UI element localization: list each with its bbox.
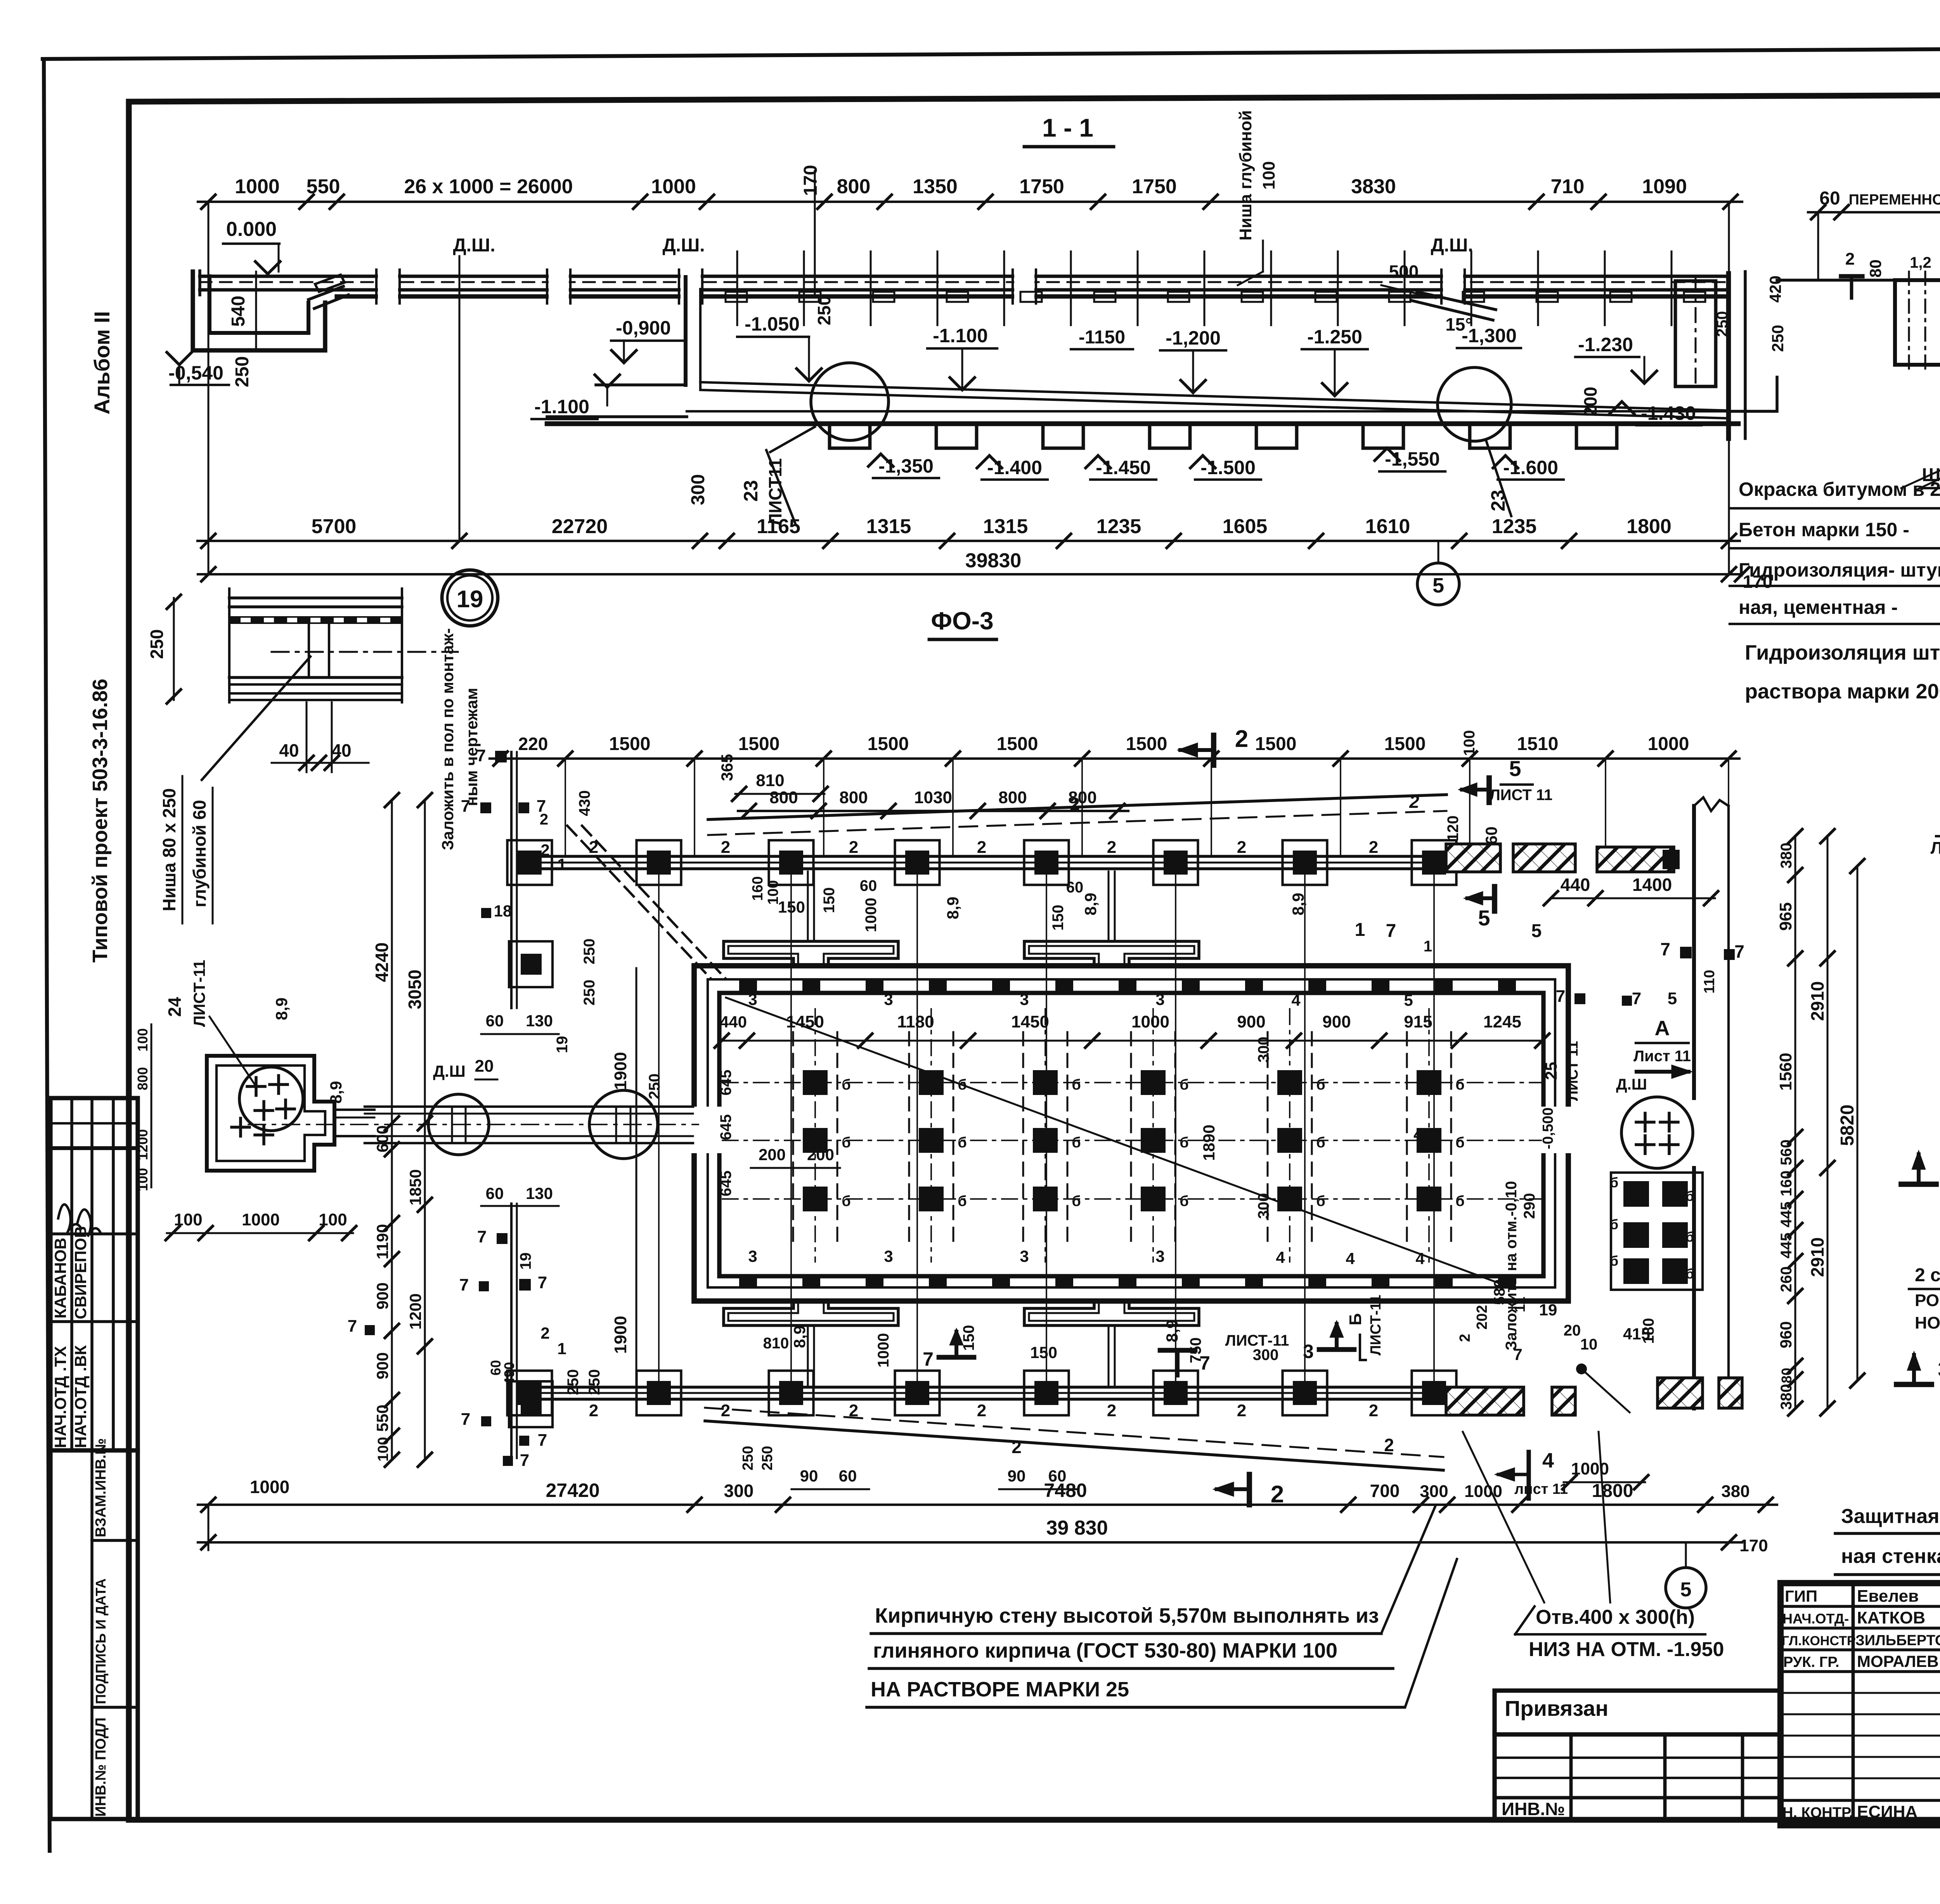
svg-text:150: 150 [1030,1343,1057,1362]
svg-text:200: 200 [759,1145,786,1164]
svg-text:24: 24 [165,997,185,1017]
svg-text:380: 380 [1778,843,1795,869]
diagonal line across pit [726,998,1498,1283]
svg-text:б: б [1685,1266,1694,1282]
svg-text:19: 19 [517,1253,534,1270]
svg-text:1560: 1560 [1776,1053,1795,1091]
svg-text:2: 2 [1237,1401,1246,1420]
svg-text:40: 40 [331,740,351,761]
bottom wall anchor squares row [739,1277,757,1288]
svg-text:60: 60 [860,877,877,894]
DSh circle 2 [589,1090,658,1159]
svg-text:б: б [1455,1135,1464,1151]
left stamp table column dividers [70,1098,73,1450]
section mark 7 arrow lower second [1160,1348,1195,1353]
svg-text:810: 810 [763,1335,789,1352]
svg-text:580: 580 [1491,1279,1508,1305]
title block signature table verticals [1852,1583,1855,1825]
svg-text:300: 300 [724,1481,754,1501]
svg-text:2: 2 [1012,1437,1022,1457]
svg-text:7: 7 [538,1273,547,1292]
svg-text:7: 7 [520,1451,529,1470]
svg-text:0.000: 0.000 [226,218,277,241]
extension verticals of 2-2 chain [1817,212,1819,280]
svg-text:710: 710 [1551,175,1585,198]
svg-text:900: 900 [373,1352,391,1379]
pit middle wall line [708,979,1555,1287]
svg-text:19: 19 [457,586,483,613]
svg-text:глубиной 60: глубиной 60 [189,800,210,907]
svg-text:900: 900 [1237,1012,1265,1031]
svg-text:1 - 1: 1 - 1 [1042,113,1093,142]
svg-text:ФО-3: ФО-3 [931,607,993,635]
svg-text:1605: 1605 [1223,515,1268,538]
left vertical dimension chains of plan [391,800,393,1460]
svg-text:7: 7 [1386,921,1396,941]
svg-text:80: 80 [1779,1368,1794,1383]
svg-text:490: 490 [501,1362,517,1385]
svg-text:1900: 1900 [611,1052,630,1090]
foundation slab thick bottom line [547,421,1738,426]
svg-text:8,9: 8,9 [1163,1320,1181,1342]
svg-text:2: 2 [540,811,548,828]
svg-text:1165: 1165 [757,515,800,538]
inner top dimension row of pit [722,1040,1542,1042]
small anchor hooks row under floor band [726,292,747,302]
tooth detail circle 23 right [1438,367,1511,441]
svg-text:б: б [1685,1188,1694,1204]
svg-text:5: 5 [1668,989,1677,1008]
svg-text:90: 90 [1008,1467,1026,1485]
svg-text:1200: 1200 [406,1293,424,1329]
svg-text:1750: 1750 [1019,175,1064,198]
svg-text:100: 100 [1461,730,1478,756]
svg-text:НОЙ МАСТИКЕ: НОЙ МАСТИКЕ [1915,1313,1940,1332]
section mark 3 arrow left [1897,1382,1931,1387]
sloped line 2 above plan [708,795,1446,819]
svg-text:-1.430: -1.430 [1641,402,1696,424]
svg-text:НАЧ.ОТД .ТХ: НАЧ.ОТД .ТХ [51,1346,69,1448]
svg-text:3: 3 [748,990,757,1008]
svg-text:110: 110 [1701,970,1718,993]
svg-text:3: 3 [1155,990,1164,1008]
detail 24 left dims 100 800 1200 100 rotated [151,1024,152,1187]
section 1-1 top dimension chain [198,201,1742,203]
svg-text:540: 540 [228,296,249,327]
svg-text:1000: 1000 [651,175,696,198]
svg-text:7: 7 [477,1227,487,1246]
svg-text:250: 250 [740,1446,756,1470]
I-beam joint detail top left [228,589,230,702]
svg-text:1,2: 1,2 [1910,254,1931,271]
svg-text:1315: 1315 [983,515,1028,538]
svg-text:440: 440 [1561,875,1590,895]
left columns strip lower [510,1204,513,1458]
svg-text:8,9: 8,9 [790,1325,809,1348]
leader from niche note to I-beam [202,657,310,780]
svg-text:б: б [1180,1135,1188,1151]
svg-text:2 слоя рубе-: 2 слоя рубе- [1915,1265,1940,1286]
pit to floor sloped transition [308,286,343,300]
left stamp table row lines [50,1122,138,1124]
plan top dimension chain 800s [738,810,1128,812]
svg-text:150: 150 [821,887,838,913]
svg-text:1750: 1750 [1132,175,1177,198]
svg-text:Лист 11: Лист 11 [1633,1048,1691,1065]
svg-text:Д.Ш: Д.Ш [1616,1076,1647,1093]
svg-text:130: 130 [526,1184,553,1202]
svg-text:900: 900 [1322,1012,1351,1031]
svg-text:300: 300 [1420,1482,1448,1501]
svg-text:2: 2 [1070,794,1080,814]
svg-text:27420: 27420 [546,1480,599,1501]
svg-text:3: 3 [1155,1247,1164,1265]
svg-text:7: 7 [348,1317,357,1336]
svg-text:1235: 1235 [1096,515,1141,538]
svg-text:7: 7 [538,1431,547,1450]
right side wall of building [1692,806,1696,1098]
outer sheet border left [44,59,50,1851]
svg-text:130: 130 [526,1012,553,1030]
svg-text:-1.050: -1.050 [745,313,800,335]
svg-text:ЕСИНА: ЕСИНА [1857,1802,1917,1821]
svg-text:800: 800 [839,788,868,807]
svg-text:250: 250 [646,1074,663,1100]
svg-text:4: 4 [1346,1249,1355,1268]
svg-text:б: б [958,1135,967,1151]
left pit inner wall [210,276,308,333]
svg-text:430: 430 [576,790,593,816]
svg-text:26 x 1000 = 26000: 26 x 1000 = 26000 [404,175,573,198]
svg-text:б: б [1072,1135,1081,1151]
svg-text:915: 915 [1404,1012,1432,1031]
svg-text:б: б [1455,1077,1464,1093]
svg-text:3: 3 [884,1247,893,1265]
svg-text:2: 2 [589,1401,598,1420]
svg-text:150: 150 [960,1325,977,1351]
svg-text:1500: 1500 [997,734,1038,754]
svg-text:8,9: 8,9 [272,998,291,1020]
svg-text:8,9: 8,9 [327,1081,345,1104]
left stamp table frame [50,1098,138,1819]
svg-text:180: 180 [1640,1318,1657,1344]
svg-text:Ниша глубиной: Ниша глубиной [1236,110,1255,241]
svg-text:5: 5 [1432,574,1444,597]
top beam column boxes [508,840,552,885]
I-beam centerline [272,651,458,653]
svg-text:1500: 1500 [609,734,651,754]
svg-text:Кирпичную стену высотой 5,5: Кирпичную стену высотой 5,570м выполнять… [875,1604,1379,1627]
svg-text:СВИРЕПОВ: СВИРЕПОВ [71,1226,90,1319]
svg-text:900: 900 [373,1282,391,1310]
svg-text:Типовой проект 503-3-16.86: Типовой проект 503-3-16.86 [88,679,112,963]
svg-text:ГИП: ГИП [1785,1587,1817,1605]
svg-text:ЛИСТ 11: ЛИСТ 11 [1931,839,1940,858]
svg-text:1: 1 [1424,938,1432,955]
stamp signature squiggle 1 [58,1204,81,1234]
plan bottom dimension chain [198,1504,1777,1506]
svg-text:4: 4 [1276,1248,1285,1266]
svg-text:1800: 1800 [1592,1481,1633,1501]
svg-text:ная, цементная -: ная, цементная - [1739,596,1898,618]
leader lines from wall note [1382,1506,1436,1632]
svg-text:60: 60 [839,1467,857,1485]
bottom strip footing beam [520,1386,1440,1389]
svg-text:б: б [1316,1193,1325,1209]
svg-text:-1.100: -1.100 [933,325,988,346]
svg-text:А: А [1655,1017,1670,1040]
svg-text:250: 250 [565,1369,582,1395]
svg-text:550: 550 [307,175,340,198]
svg-text:445: 445 [1778,1202,1795,1228]
svg-text:ГЛ.КОНСТР: ГЛ.КОНСТР [1782,1634,1856,1648]
svg-text:100: 100 [135,1168,151,1191]
svg-text:4: 4 [1542,1449,1554,1472]
svg-text:7: 7 [1513,1345,1522,1363]
svg-text:раствора марки 200, состава: раствора марки 200, состава 1:1 с железн… [1745,680,1940,703]
svg-text:2: 2 [977,838,986,857]
privyazan table frame [1495,1691,1781,1820]
svg-text:7: 7 [923,1348,934,1370]
svg-text:5820: 5820 [1837,1105,1858,1146]
svg-text:1000: 1000 [242,1210,280,1229]
svg-text:ЗИЛЬБЕРТОВ: ЗИЛЬБЕРТОВ [1855,1632,1940,1649]
svg-text:7: 7 [461,797,470,816]
svg-text:КАТКОВ: КАТКОВ [1857,1608,1925,1627]
svg-text:1900: 1900 [611,1316,630,1354]
svg-text:2910: 2910 [1807,1237,1827,1277]
hatched wall block top right A [1446,844,1500,872]
svg-text:2: 2 [1409,792,1419,812]
svg-text:ВЗАМ.ИНВ.№: ВЗАМ.ИНВ.№ [93,1438,109,1537]
svg-text:б: б [958,1193,967,1209]
svg-text:1000: 1000 [1648,734,1689,754]
svg-text:2: 2 [1845,249,1855,269]
title block outer frame [1781,1583,1940,1825]
circle 5 left of spec table [1417,563,1459,605]
svg-text:2: 2 [977,1401,986,1420]
svg-text:7: 7 [476,746,486,765]
outer sheet border top [43,46,1940,59]
svg-text:445: 445 [1778,1233,1795,1259]
vertical reference line at 5700 [459,256,461,541]
svg-text:-1,550: -1,550 [1385,448,1440,470]
svg-text:18: 18 [494,902,512,920]
svg-text:1610: 1610 [1365,515,1410,538]
svg-text:ЛИСТ-11: ЛИСТ-11 [1225,1332,1289,1349]
svg-text:Заложить на отм.-0,10: Заложить на отм.-0,10 [1503,1181,1520,1351]
svg-text:380: 380 [1721,1482,1749,1501]
right wall door opening [1539,1107,1578,1153]
svg-text:4: 4 [1415,1249,1425,1268]
svg-text:60: 60 [486,1184,504,1202]
svg-text:1000: 1000 [250,1477,289,1497]
svg-text:ПОДПИСЬ И ДАТА: ПОДПИСЬ И ДАТА [93,1578,109,1704]
svg-text:380: 380 [1778,1384,1795,1410]
svg-text:60: 60 [486,1012,504,1030]
svg-text:3: 3 [1938,1357,1940,1381]
svg-text:1400: 1400 [1632,875,1672,895]
detail circle 19 [442,570,498,626]
svg-text:-1.100: -1.100 [534,396,589,418]
floor slab band [200,275,1729,278]
svg-text:1315: 1315 [866,515,911,538]
svg-text:б: б [1610,1253,1618,1269]
svg-text:б: б [1610,1175,1618,1190]
svg-text:3: 3 [1303,1341,1314,1362]
bottom T-channel protrusion left [724,1301,898,1325]
svg-text:220: 220 [518,734,548,754]
svg-text:1000: 1000 [1131,1012,1169,1031]
svg-text:800: 800 [998,788,1027,807]
svg-text:8,9: 8,9 [1289,893,1307,915]
svg-text:150: 150 [1050,905,1067,931]
svg-text:б: б [1180,1077,1188,1093]
sloped line 2 below plan [705,1421,1443,1470]
svg-text:1180: 1180 [897,1012,934,1031]
privyazan table rows [1495,1757,1781,1759]
hatched wall block top right B [1513,844,1575,872]
svg-text:1000: 1000 [863,898,880,932]
svg-text:5: 5 [1478,906,1490,930]
svg-text:3050: 3050 [405,970,425,1009]
slope wedge at right end 500 [1417,292,1496,310]
svg-text:1200: 1200 [135,1129,151,1160]
svg-text:РУК. ГР.: РУК. ГР. [1783,1654,1840,1670]
svg-text:5700: 5700 [312,515,357,538]
svg-text:2: 2 [1237,838,1246,857]
svg-text:3: 3 [1020,1247,1029,1265]
section mark 7 arrow lower [939,1355,974,1360]
svg-text:25: 25 [1542,1062,1560,1080]
grid verticals through pit at column axes [658,871,660,1387]
svg-text:2: 2 [1107,1401,1116,1420]
svg-text:800: 800 [135,1067,151,1090]
svg-text:560: 560 [1778,1140,1795,1166]
detail 24 right arm channel [334,1109,374,1111]
svg-text:5: 5 [1404,991,1413,1009]
svg-text:7: 7 [1734,941,1744,962]
ground line of section 2-2 [1777,279,1940,282]
svg-text:250: 250 [581,980,598,1006]
svg-text:200: 200 [807,1145,834,1164]
svg-text:7: 7 [459,1275,469,1294]
svg-text:8,9: 8,9 [1081,893,1100,915]
svg-text:400: 400 [1413,1125,1441,1143]
hatched block far bottom right [1719,1378,1742,1408]
svg-text:Альбом II: Альбом II [90,311,114,415]
svg-text:1030: 1030 [914,788,952,807]
svg-text:365: 365 [718,754,736,781]
svg-text:160: 160 [750,876,766,901]
svg-text:Гидроизоляция- штукатур-: Гидроизоляция- штукатур- [1739,559,1940,581]
svg-text:б: б [1072,1077,1081,1093]
svg-text:-0,540: -0,540 [168,362,223,384]
svg-text:60: 60 [1066,879,1084,896]
dashed line below sloped line [708,811,1446,835]
plan top dimension chain 1500s [490,757,1739,760]
svg-text:15°: 15° [1445,314,1472,334]
svg-text:ПЕРЕМЕННО: ПЕРЕМЕННО [1849,192,1940,208]
svg-text:645: 645 [717,1171,734,1197]
svg-text:7: 7 [1199,1352,1210,1374]
svg-text:РОИДА НА БИТУМ-: РОИДА НА БИТУМ- [1915,1291,1940,1310]
trench left floor stub at -1.100 [596,383,686,386]
svg-text:Бетон марки 150 -: Бетон марки 150 - [1739,519,1909,541]
section mark 4 arrow 3-3 [1901,1182,1936,1187]
svg-text:100: 100 [1259,161,1278,189]
top T-channel protrusion right [1024,941,1199,966]
svg-text:20: 20 [475,1057,494,1076]
svg-text:НАЧ.ОТД .ВК: НАЧ.ОТД .ВК [71,1345,90,1448]
svg-text:290: 290 [1521,1193,1538,1219]
hatched block bottom right wall [1658,1378,1703,1408]
svg-text:260: 260 [1778,1266,1795,1292]
floor band joint gaps [378,272,398,300]
svg-text:б: б [1316,1077,1325,1093]
hatched wall block top right C [1597,847,1674,872]
svg-text:90: 90 [800,1467,818,1485]
svg-text:Д.Ш.: Д.Ш. [1431,235,1473,256]
svg-text:НА РАСТВОРЕ МАРКИ 25: НА РАСТВОРЕ МАРКИ 25 [871,1678,1129,1701]
svg-text:250: 250 [1769,325,1787,352]
svg-text:ЛИСТ 11: ЛИСТ 11 [1565,1041,1581,1101]
svg-text:250: 250 [814,296,834,326]
svg-text:2: 2 [1369,838,1378,857]
svg-text:НИЗ НА ОТМ. -1.950: НИЗ НА ОТМ. -1.950 [1529,1638,1724,1661]
section 2-2 dimension chain [1808,211,1940,213]
svg-text:2: 2 [721,1401,730,1420]
privyazan table thick divider [1495,1732,1781,1736]
svg-text:1: 1 [557,855,566,873]
svg-text:3: 3 [884,990,893,1008]
foundation slab top line [687,410,1738,412]
svg-text:22720: 22720 [552,515,608,538]
svg-text:2: 2 [1384,1435,1394,1455]
top strip footing beam [520,855,1440,858]
svg-text:250: 250 [147,629,167,659]
svg-text:440: 440 [720,1013,747,1031]
svg-text:960: 960 [1777,1321,1795,1348]
svg-text:60: 60 [1819,188,1840,209]
left wall door opening [689,1107,724,1153]
svg-text:Заложить в пол по монтаж-: Заложить в пол по монтаж- [438,628,457,850]
svg-text:ЛИСТ-11: ЛИСТ-11 [1368,1295,1384,1356]
trench sloping floor lines [700,382,1729,411]
svg-text:2910: 2910 [1807,981,1827,1021]
svg-text:200: 200 [1580,387,1600,417]
svg-text:Д.Ш: Д.Ш [433,1062,466,1080]
svg-text:40: 40 [279,740,299,761]
detail 24 square with circle left [207,1056,334,1171]
bottom beam column boxes [508,1371,552,1415]
signature table thin rows [1781,1692,1940,1694]
svg-text:80: 80 [1866,260,1885,278]
svg-text:5: 5 [1680,1578,1692,1601]
svg-text:ЛИСТ-11: ЛИСТ-11 [190,960,208,1027]
svg-text:550: 550 [373,1405,391,1432]
svg-text:ная стенка: ная стенка [1841,1545,1940,1568]
svg-text:19: 19 [1539,1301,1557,1319]
svg-text:1450: 1450 [1011,1012,1049,1031]
svg-text:170: 170 [1739,1536,1768,1555]
svg-text:500: 500 [1389,262,1419,282]
svg-text:250: 250 [586,1369,603,1395]
svg-text:Ниша 80 х 250: Ниша 80 х 250 [159,788,179,911]
section mark 2 top [1211,735,1216,765]
left pit of section 1-1 outer wall [193,272,325,350]
DSh circle right [1621,1097,1693,1168]
